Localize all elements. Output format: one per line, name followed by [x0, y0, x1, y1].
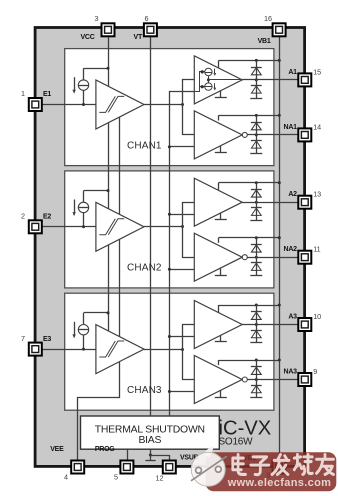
svg-text:VB1: VB1	[258, 38, 271, 45]
svg-text:CHAN3: CHAN3	[127, 385, 162, 396]
svg-text:A3: A3	[288, 314, 297, 321]
svg-text:E2: E2	[43, 214, 51, 221]
svg-text:SO16W: SO16W	[219, 437, 254, 448]
svg-text:4: 4	[64, 473, 68, 482]
svg-text:3: 3	[95, 14, 99, 23]
svg-text:6: 6	[145, 14, 149, 23]
svg-text:A2: A2	[288, 191, 297, 198]
svg-text:PROG: PROG	[95, 446, 115, 453]
svg-text:13: 13	[313, 190, 321, 199]
svg-text:9: 9	[313, 367, 317, 376]
svg-text:E3: E3	[43, 336, 51, 343]
svg-text:11: 11	[313, 245, 320, 254]
svg-text:NA1: NA1	[284, 124, 298, 131]
svg-text:1: 1	[21, 89, 25, 98]
svg-text:10: 10	[313, 312, 321, 321]
svg-text:2: 2	[21, 212, 25, 221]
svg-text:7: 7	[21, 334, 25, 343]
svg-text:A1: A1	[288, 69, 297, 76]
svg-text:www.elecfans.com: www.elecfans.com	[227, 477, 332, 489]
svg-text:NA3: NA3	[284, 369, 298, 376]
svg-text:BIAS: BIAS	[138, 435, 161, 446]
svg-text:VEE: VEE	[50, 446, 64, 453]
svg-text:VT: VT	[134, 34, 143, 41]
svg-text:CHAN2: CHAN2	[127, 263, 162, 274]
svg-text:NA2: NA2	[284, 246, 298, 253]
svg-text:E1: E1	[43, 91, 51, 98]
svg-text:12: 12	[156, 474, 164, 483]
svg-text:15: 15	[313, 67, 321, 76]
svg-text:VCC: VCC	[80, 34, 94, 41]
svg-text:5: 5	[114, 473, 118, 482]
svg-text:16: 16	[264, 14, 272, 23]
svg-text:CHAN1: CHAN1	[127, 140, 162, 151]
svg-text:THERMAL SHUTDOWN: THERMAL SHUTDOWN	[95, 424, 205, 435]
svg-text:14: 14	[313, 122, 321, 131]
